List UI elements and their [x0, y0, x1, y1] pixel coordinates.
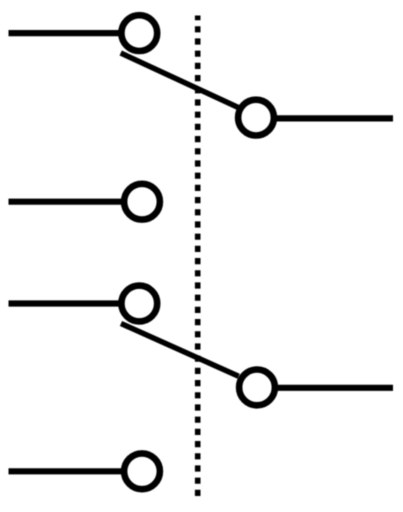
wire: pole 1 left lead	[9, 30, 123, 36]
wire: throw 2 right lead	[275, 385, 393, 391]
wire: terminal 2 left lead	[9, 199, 126, 205]
wire: switch lever 2 (moving contact)	[121, 324, 239, 377]
mechanical linkage (dotted coupling line)	[195, 16, 201, 497]
node: throw 1 contact circle	[238, 100, 274, 136]
node: terminal 4 contact circle	[124, 453, 160, 489]
node: throw 2 contact circle	[239, 370, 275, 406]
wire: switch lever 1 (moving contact)	[121, 53, 239, 108]
wire: pole 2 left lead	[9, 300, 123, 306]
wire: throw 1 right lead	[274, 115, 393, 121]
node: pole 1 contact circle	[121, 15, 157, 51]
wire: terminal 4 left lead	[9, 468, 126, 474]
node: terminal 2 contact circle	[124, 184, 160, 220]
node: pole 2 contact circle	[121, 286, 157, 322]
